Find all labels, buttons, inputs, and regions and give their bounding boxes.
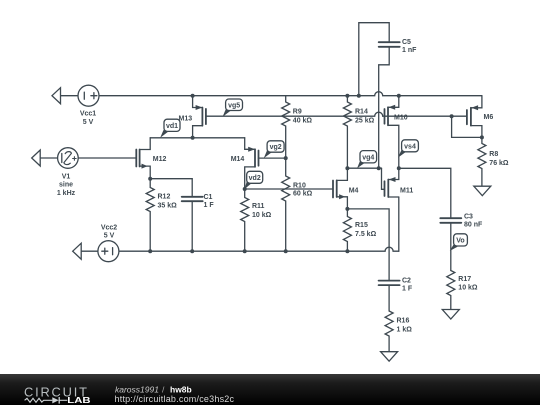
svg-text:1 nF: 1 nF xyxy=(402,47,417,54)
svg-text:vg2: vg2 xyxy=(270,144,282,151)
wire M6 gate to source (R8 top) xyxy=(452,116,482,137)
wire vg4 net (R14/M4 drain to M11 gate) xyxy=(347,167,381,169)
svg-text:C1: C1 xyxy=(204,194,213,201)
junction R14 bottom / M4 drain node vg4 xyxy=(345,166,349,170)
svg-text:Vcc1: Vcc1 xyxy=(80,111,96,118)
junction C1 bottom / Vcc2 rail xyxy=(190,249,194,253)
wire M12 source to C1 xyxy=(150,178,192,180)
resistor R11 xyxy=(241,189,272,251)
wire M4 source loop to C2 xyxy=(347,209,389,281)
junction C5 left leg / Vcc1 rail xyxy=(357,94,361,98)
svg-text:R15: R15 xyxy=(355,222,368,229)
svg-text:1 F: 1 F xyxy=(402,285,413,292)
svg-text:5 V: 5 V xyxy=(104,233,115,240)
resistor R15 xyxy=(343,209,376,251)
junction R14 top / Vcc1 rail xyxy=(345,94,349,98)
transistor M12 xyxy=(136,138,166,179)
wire vd2 net (M14 source to M4 gate) xyxy=(245,188,333,190)
svg-text:C5: C5 xyxy=(402,39,411,46)
svg-text:Vcc2: Vcc2 xyxy=(101,224,117,231)
junction M6 gate branch / vg5 wire xyxy=(450,114,454,118)
svg-text:10 kΩ: 10 kΩ xyxy=(252,212,272,219)
svg-text:vs4: vs4 xyxy=(404,143,416,150)
wire vd1 net (M12 drain to M14) xyxy=(150,137,245,139)
svg-text:vd2: vd2 xyxy=(249,175,261,182)
voltage source Vcc1 xyxy=(52,85,99,126)
svg-text:vg5: vg5 xyxy=(228,102,240,109)
wire M11 source to Vcc2 rail xyxy=(398,197,400,251)
svg-text:60 kΩ: 60 kΩ xyxy=(293,191,313,198)
junction M10 source / M11 node vs4 xyxy=(397,166,401,170)
ground below R16 xyxy=(381,352,398,362)
CircuitLab logo CIRCUIT xyxy=(24,384,88,399)
junction C5 leg / vg4 wire xyxy=(377,166,381,170)
resistor R10 xyxy=(282,158,313,251)
svg-text:R16: R16 xyxy=(397,318,410,325)
svg-text:25 kΩ: 25 kΩ xyxy=(355,118,375,125)
svg-text:M10: M10 xyxy=(394,114,408,121)
svg-text:vd1: vd1 xyxy=(166,123,178,130)
svg-text:7.5 kΩ: 7.5 kΩ xyxy=(355,231,377,238)
svg-text:M11: M11 xyxy=(400,187,413,194)
flag vg4 xyxy=(357,151,377,169)
wire C5 top loop xyxy=(359,23,389,96)
flag vs4 xyxy=(398,140,418,158)
resistor R17 xyxy=(447,271,478,310)
resistor R8 xyxy=(478,137,509,186)
svg-text:M12: M12 xyxy=(153,156,167,163)
junction M13 drain / Vcc1 rail xyxy=(191,94,195,98)
svg-text:1 kHz: 1 kHz xyxy=(57,190,76,197)
wire vg2 net (M14 gate to R9/R10) xyxy=(259,157,286,159)
junction R12 bottom / Vcc2 rail xyxy=(148,249,152,253)
junction M4 source / R15 top xyxy=(345,207,349,211)
footer url xyxy=(115,394,235,404)
footer bar xyxy=(0,374,540,405)
svg-text:M14: M14 xyxy=(231,156,245,163)
junction R15 bottom / Vcc2 rail xyxy=(345,249,349,253)
svg-text:R10: R10 xyxy=(293,183,306,190)
flag vg5 xyxy=(223,99,243,117)
wire V1 to M12 gate xyxy=(78,157,136,159)
flag Vo xyxy=(450,234,468,251)
ground below R17 xyxy=(442,310,459,320)
svg-text:76 kΩ: 76 kΩ xyxy=(489,160,509,167)
resistor R14 xyxy=(343,96,374,169)
junction R10 bottom / Vcc2 rail xyxy=(284,249,288,253)
junction R11 bottom / Vcc2 rail xyxy=(243,249,247,253)
wire vs4 net (M10 source to C3) xyxy=(399,168,451,218)
transistor M10 xyxy=(385,96,408,169)
svg-text:Vo: Vo xyxy=(456,238,464,245)
wire Vcc2 rail xyxy=(119,247,399,251)
junction M14 gate / R9-R10 node vg2 xyxy=(284,156,288,160)
resistor R12 xyxy=(146,179,177,252)
svg-text:35 kΩ: 35 kΩ xyxy=(158,203,178,210)
svg-text:10 kΩ: 10 kΩ xyxy=(458,285,478,292)
capacitor C1 xyxy=(182,179,215,252)
svg-text:1 kΩ: 1 kΩ xyxy=(397,327,413,334)
svg-text:M6: M6 xyxy=(484,114,494,121)
CircuitLab logo resistor+diode and LAB xyxy=(25,396,91,405)
flag vg2 xyxy=(264,141,284,158)
ground below R8 xyxy=(474,186,491,196)
svg-text:vg4: vg4 xyxy=(362,154,374,161)
wire vg5 net (M13 gate to M6 gate) xyxy=(206,112,467,116)
svg-text:V1: V1 xyxy=(62,173,71,180)
transistor M4 xyxy=(333,168,359,209)
voltage source V1 sine xyxy=(32,148,79,197)
svg-text:R8: R8 xyxy=(489,151,498,158)
transistor M11 xyxy=(382,168,414,197)
svg-text:R17: R17 xyxy=(458,276,471,283)
svg-text:R14: R14 xyxy=(355,109,368,116)
capacitor C5 xyxy=(379,39,417,54)
resistor R9 xyxy=(282,96,313,158)
svg-text:1 F: 1 F xyxy=(204,202,215,209)
svg-text:C2: C2 xyxy=(402,277,411,284)
resistor R16 xyxy=(385,311,412,352)
capacitor C2 xyxy=(379,277,413,311)
transistor M14 xyxy=(231,138,259,189)
svg-text:R11: R11 xyxy=(252,203,265,210)
svg-text:sine: sine xyxy=(59,182,73,189)
svg-text:http://circuitlab.com/ce3hs2c: http://circuitlab.com/ce3hs2c xyxy=(115,394,235,404)
transistor M6 xyxy=(467,96,493,138)
flag vd1 xyxy=(160,119,180,138)
capacitor C3 xyxy=(440,214,483,271)
svg-text:40 kΩ: 40 kΩ xyxy=(293,118,313,125)
junction M13 source / vd1 wire xyxy=(191,136,195,140)
svg-text:M4: M4 xyxy=(349,187,359,194)
svg-text:80 nF: 80 nF xyxy=(464,222,483,229)
svg-text:R12: R12 xyxy=(158,194,171,201)
svg-text:M13: M13 xyxy=(179,115,193,122)
junction M10 drain / Vcc1 rail xyxy=(397,94,401,98)
voltage source Vcc2 xyxy=(73,224,119,261)
wire Vcc1 top rail xyxy=(99,92,482,96)
svg-text:C3: C3 xyxy=(464,214,473,221)
svg-text:R9: R9 xyxy=(293,109,302,116)
svg-text:LAB: LAB xyxy=(67,396,90,405)
footer text kaross1991 / hw8b xyxy=(115,385,192,395)
junction M12 source / R12 top xyxy=(148,177,152,181)
transistor M13 xyxy=(179,96,206,138)
junction M6 source / R8 top xyxy=(480,135,484,139)
flag vd2 xyxy=(244,171,262,189)
junction M14 source / R11 top node vd2 xyxy=(243,187,247,191)
wire C5 bottom leg to vg4 xyxy=(379,47,390,168)
svg-text:5 V: 5 V xyxy=(83,119,94,126)
